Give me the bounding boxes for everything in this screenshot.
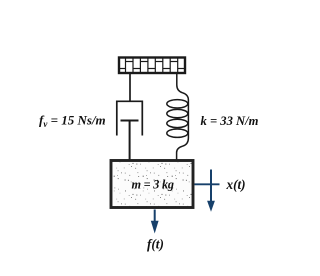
node line (blue tick) on right of mass [195, 183, 220, 185]
svg-text:fv = 15 Ns/m: fv = 15 Ns/m [39, 112, 106, 129]
svg-text:x(t): x(t) [226, 177, 246, 192]
arrow x(t) (displacement, downward) [207, 170, 215, 212]
svg-text:m = 3 kg: m = 3 kg [132, 177, 174, 191]
svg-text:f(t): f(t) [147, 237, 164, 252]
wire: spring top rod [177, 74, 189, 101]
wire: damper top rod [129, 74, 131, 102]
arrow f(t) (applied force, downward) [151, 210, 159, 234]
mass block m [111, 161, 193, 208]
svg-text:k = 33 N/m: k = 33 N/m [201, 114, 259, 128]
damper fv (viscous dashpot) [117, 101, 143, 160]
spring k (coil) [167, 100, 189, 160]
fixed support (hatched wall block) [119, 58, 185, 74]
